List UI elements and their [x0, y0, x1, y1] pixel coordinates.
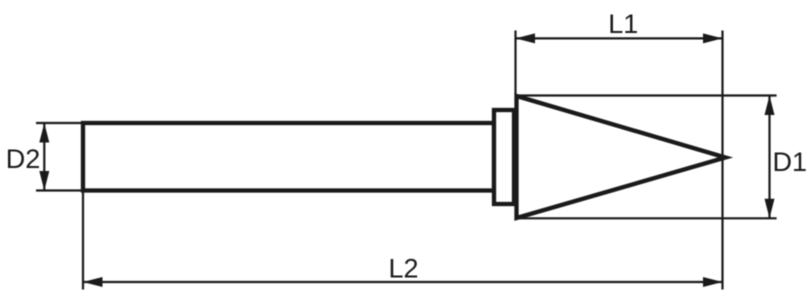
body: collar rectangle	[494, 110, 514, 204]
arrow: D2 bottom arrowhead	[39, 171, 49, 191]
wire: D2 dimension line	[43, 123, 45, 191]
wire: D1 top extension line	[517, 94, 777, 96]
wire: D2 bottom extension line	[36, 189, 86, 191]
wire: L1 left extension line	[514, 31, 516, 95]
wire: L1-L2 right extension line	[721, 31, 723, 290]
wire: L2 left extension line	[82, 193, 84, 290]
svg-text:L2: L2	[389, 254, 419, 284]
wire: D2 top extension line	[36, 122, 86, 124]
body: cone head	[517, 96, 726, 218]
arrow: L1 left arrowhead	[516, 33, 536, 43]
svg-text:D1: D1	[773, 147, 808, 177]
wire: L2 dimension line	[83, 281, 723, 283]
arrow: L2 left arrowhead	[83, 277, 103, 287]
arrow: L1 right arrowhead	[703, 33, 723, 43]
body: tool shank rectangle	[83, 123, 494, 191]
arrow: D2 top arrowhead	[39, 123, 49, 143]
arrow: D1 bottom arrowhead	[765, 199, 775, 219]
wire: D1 dimension line	[768, 96, 770, 219]
arrow: D1 top arrowhead	[765, 96, 775, 116]
wire: D1 bottom extension line	[517, 217, 777, 219]
wire: L1 dimension line	[516, 37, 723, 39]
arrow: L2 right arrowhead	[703, 277, 723, 287]
svg-text:D2: D2	[6, 144, 41, 174]
svg-text:L1: L1	[608, 9, 638, 39]
